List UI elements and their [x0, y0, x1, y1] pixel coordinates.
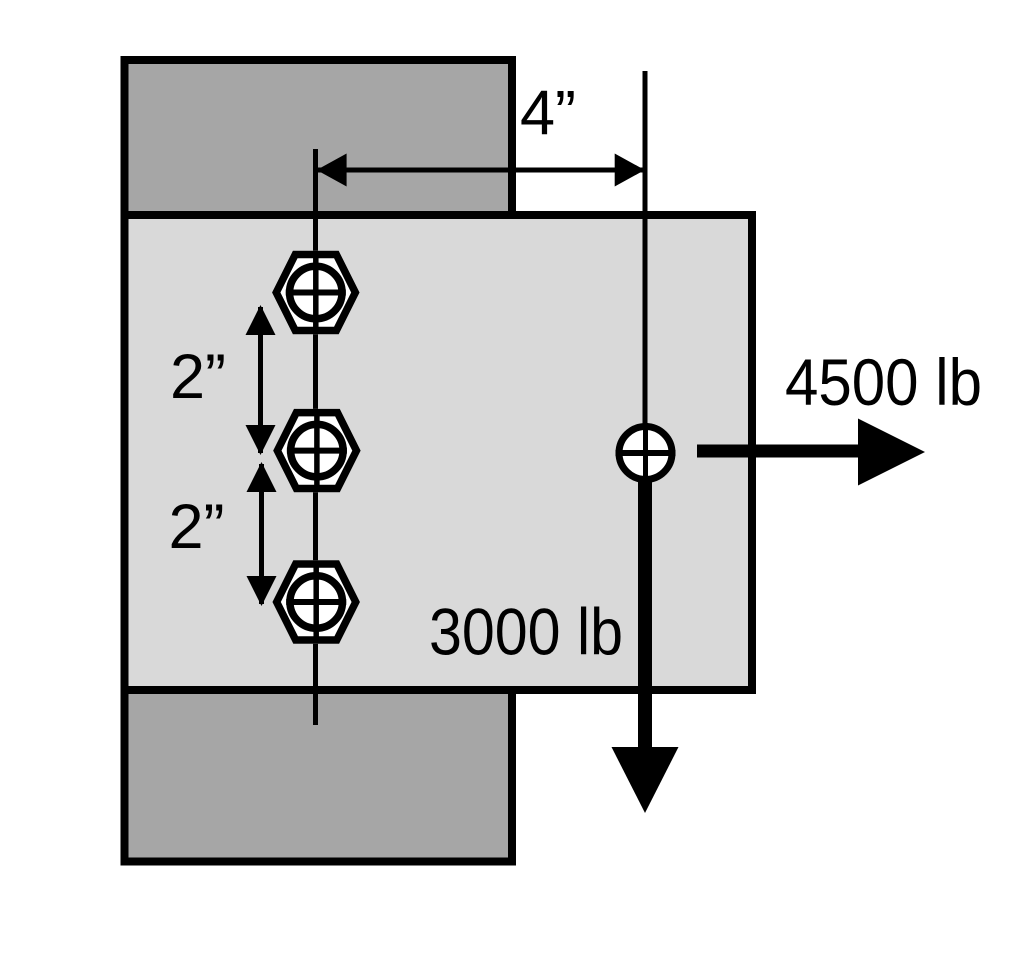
dimension 2 inch lower: bottom arrowhead	[247, 576, 277, 606]
svg-text:4”: 4”	[520, 79, 576, 149]
dimension 4 inch: line	[317, 168, 645, 173]
bolt B3 (bottom hex bolt)	[272, 560, 360, 643]
force arrow 4500 lb: shaft	[697, 445, 860, 458]
dimension 2 inch upper: top arrowhead	[246, 305, 276, 335]
svg-text:3000 lb: 3000 lb	[429, 595, 623, 669]
dimension 4 inch: right arrowhead	[615, 154, 645, 187]
force arrow 3000 lb: head	[612, 747, 679, 813]
bracket plate (light gray)	[125, 215, 753, 690]
bolt B1 (top hex bolt)	[272, 251, 360, 334]
force arrow 3000 lb: shaft	[638, 480, 652, 750]
force arrow 4500 lb: head	[858, 419, 925, 486]
svg-text:4500 lb: 4500 lb	[785, 345, 982, 419]
svg-text:2”: 2”	[170, 342, 226, 412]
column (dark gray vertical member)	[125, 60, 513, 862]
bolt centerline	[313, 149, 318, 725]
dimension 2 inch upper: line	[258, 307, 263, 453]
load application line	[643, 71, 648, 460]
bolt B2 (middle hex bolt)	[273, 409, 361, 492]
dimension 4 inch: left arrowhead	[317, 154, 347, 187]
dimension 2 inch upper: bottom arrowhead	[246, 425, 276, 455]
svg-text:2”: 2”	[169, 492, 225, 562]
dimension 2 inch lower: line	[259, 464, 264, 604]
load point circle	[616, 423, 676, 483]
dimension 2 inch lower: top arrowhead	[247, 462, 277, 492]
